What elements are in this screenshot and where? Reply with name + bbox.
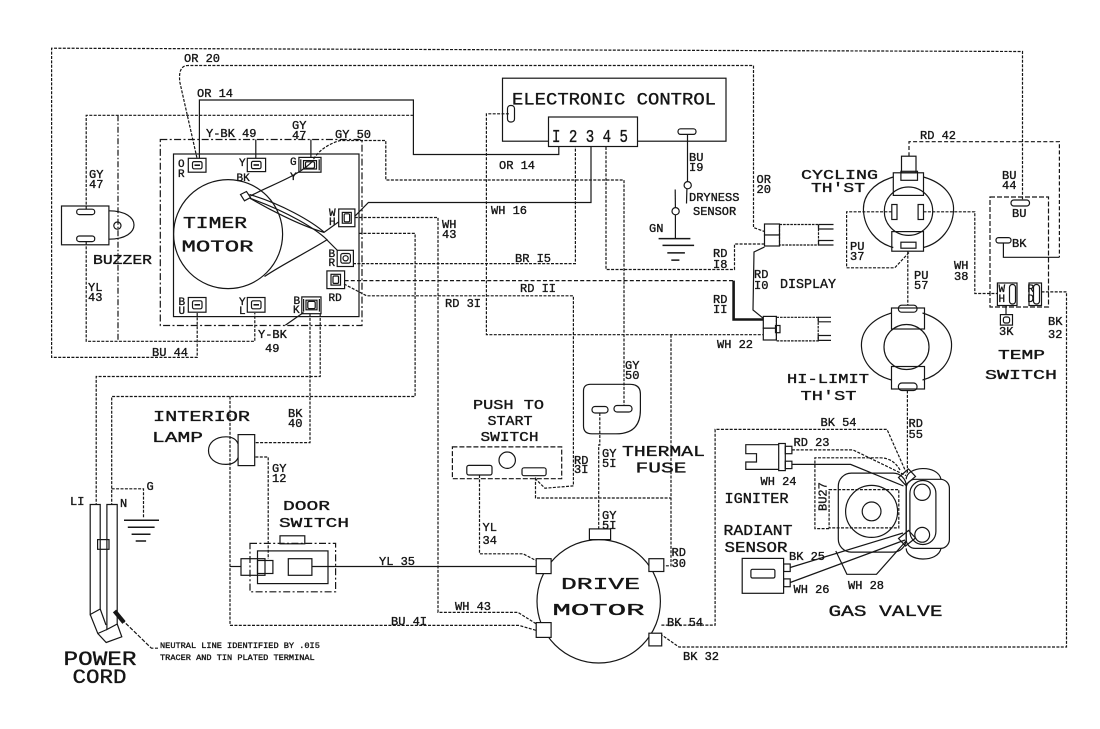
svg-text:57: 57: [914, 279, 928, 293]
wire BR15: B-R terminal right to 12345 pin: [353, 147, 575, 264]
gas valve top hump: [906, 469, 941, 480]
door switch outer box: [250, 543, 336, 591]
drive motor top terminal: [589, 529, 610, 540]
interior lamp socket: [238, 435, 255, 466]
wire RD31: RD terminal diagonal, right y=295.8, down x=573.4, left, diagonal into PTS right terminal: [344, 284, 573, 488]
svg-text:PUSH TO: PUSH TO: [473, 398, 544, 414]
radiant sensor inner capsule: [751, 569, 775, 578]
svg-text:K: K: [293, 305, 300, 317]
svg-text:BK 25: BK 25: [789, 550, 825, 564]
radiant sensor bottom prong: [784, 579, 791, 587]
svg-text:THERMAL: THERMAL: [622, 444, 705, 461]
svg-text:FUSE: FUSE: [636, 461, 687, 478]
wire WH22: EC left pin down x=486.4, right y=334.7 to connector 2: [486, 114, 763, 335]
wire BK40: B-K terminal left side down to lamp socket: [255, 314, 310, 443]
svg-text:12: 12: [272, 472, 286, 486]
svg-text:BK: BK: [237, 173, 251, 185]
temp switch BK terminal capsule: [996, 238, 1011, 243]
cycling thermostat left contact: [892, 205, 897, 220]
gas valve top circle: [914, 484, 930, 500]
svg-text:30: 30: [672, 557, 686, 571]
power cord N prong: [107, 505, 117, 630]
display connector 1 prongs: [819, 225, 834, 246]
svg-text:H: H: [999, 294, 1006, 306]
timer terminal B-K (double wall): [302, 297, 321, 314]
gas valve solenoid pill: [910, 481, 936, 545]
power cord ground bars: [124, 520, 159, 541]
wire YL35: door switch contact to motor upper-left terminal: [312, 566, 537, 568]
svg-text:BU27: BU27: [817, 482, 831, 511]
temp switch BU terminal capsule: [1011, 200, 1030, 206]
cycling thermostat bottom inner rect: [901, 242, 916, 248]
wire GY51: thermal fuse left capsule down to drive motor top: [599, 413, 600, 529]
pts left terminal: [467, 465, 492, 475]
svg-text:WH 26: WH 26: [794, 583, 830, 597]
igniter flange: [779, 444, 786, 471]
wire BK25: sensor top prong to gas valve bottom terminal: [790, 533, 903, 568]
svg-text:YL 35: YL 35: [379, 555, 415, 569]
gas valve coil dashed box: [829, 490, 899, 528]
wire WH38: cycling right contact to temp switch W-H: [924, 212, 998, 294]
svg-text:I 2 3 4 5: I 2 3 4 5: [552, 127, 628, 148]
display connector 2 prongs: [818, 317, 831, 340]
timer cam leaf 2: [251, 199, 328, 277]
buzzer small circle: [114, 222, 121, 229]
svg-text:47: 47: [292, 129, 306, 143]
svg-text:IGNITER: IGNITER: [725, 492, 789, 508]
thermal fuse right capsule: [614, 406, 632, 413]
svg-text:MOTOR: MOTOR: [553, 602, 645, 621]
svg-text:BK 54: BK 54: [821, 416, 857, 430]
gas valve bottom terminal block: [899, 531, 916, 547]
svg-text:OR 14: OR 14: [499, 159, 535, 173]
wire BK32: R-D terminal right, down x=1066.5, left y=647 to motor: [661, 292, 1066, 647]
buzzer box: [62, 206, 109, 245]
GN ground stem: [674, 215, 676, 239]
svg-text:U: U: [179, 306, 186, 318]
svg-text:WH 16: WH 16: [491, 204, 527, 218]
radiant sensor box: [742, 558, 783, 593]
wire timer-K to power L1: down x=320.2, left y=376.5, down x=96.2 to L1 prong: [96, 314, 320, 505]
timer terminal G-Y (double wall): [299, 157, 321, 172]
wire YL43: buzzer bottom down, right along y=341.3, up into Y-L terminal: [86, 242, 255, 341]
power cord ground wire: [112, 489, 144, 519]
gas valve bottom circle: [915, 527, 930, 542]
svg-text:GN: GN: [649, 222, 663, 236]
wire WH24: igniter bottom right, diagonal to gas valve top terminal lower: [792, 464, 904, 486]
wire RD42: cycling top to temp switch BK line: [909, 142, 1059, 258]
timer terminal B-U: [188, 298, 206, 313]
svg-text:NEUTRAL LINE IDENTIFIED BY .0I: NEUTRAL LINE IDENTIFIED BY .0I5: [160, 641, 320, 651]
wire GY47 drop to G-Y terminal: [310, 140, 312, 159]
svg-text:SWITCH: SWITCH: [985, 369, 1057, 384]
svg-text:43: 43: [88, 291, 102, 305]
power cord L1 prong: [90, 505, 100, 615]
gas valve bottom hump: [906, 548, 941, 559]
drive motor upper-right terminal: [649, 559, 664, 572]
svg-text:BU 44: BU 44: [152, 346, 188, 360]
cycling thermostat top neck: [893, 173, 923, 196]
buzzer top terminal: [77, 209, 95, 214]
wire YL34: pts left terminal down, right, into motor upper-left: [480, 475, 538, 561]
thermal fuse left capsule: [592, 407, 608, 414]
svg-text:ELECTRONIC CONTROL: ELECTRONIC CONTROL: [512, 91, 716, 111]
timer inner box: [174, 154, 360, 317]
wire OR14: O-R terminal up, right, down at 413.4, right to 12345 pin1: [199, 100, 558, 158]
wire door-switch drop: from N line down x=230 to BU41 run: [229, 397, 231, 626]
wire door switch left terminal to BU41 drop: [230, 566, 241, 568]
drive motor upper-left terminal: [536, 559, 551, 574]
wire RD10: connector1 to connector2 vertical: [753, 247, 765, 319]
svg-text:TH'ST: TH'ST: [801, 389, 857, 405]
gas valve bottom flange: [836, 541, 906, 574]
svg-text:BK: BK: [1048, 315, 1063, 329]
door switch contact rect: [288, 559, 312, 576]
cycling thermostat top stem rect: [902, 156, 917, 173]
svg-text:BU: BU: [1012, 207, 1026, 221]
svg-text:50: 50: [625, 369, 639, 383]
hi-limit top capsule: [898, 305, 917, 312]
svg-text:OR 20: OR 20: [184, 52, 220, 66]
svg-text:44: 44: [1002, 179, 1016, 193]
svg-text:5I: 5I: [602, 457, 616, 471]
wire BK: BK capsule down then right to RD42: [1003, 243, 1059, 257]
svg-text:WH 43: WH 43: [455, 600, 491, 614]
svg-text:BK 54: BK 54: [667, 616, 703, 630]
GN ground bars: [659, 239, 695, 261]
svg-text:G: G: [147, 480, 154, 494]
svg-text:I9: I9: [689, 161, 703, 175]
svg-text:DISPLAY: DISPLAY: [780, 278, 836, 293]
timer cam leaf2 tip link to B-R: [327, 240, 338, 251]
timer terminal Y-L: [247, 298, 265, 313]
timer terminal RD: [327, 271, 345, 289]
gas valve body rounded square: [838, 473, 906, 552]
svg-text:DOOR: DOOR: [283, 499, 331, 515]
svg-text:YL: YL: [483, 521, 497, 535]
svg-text:32: 32: [1048, 328, 1062, 342]
wire OR20: O-R terminal diagonal up, across y=65.5, down right side at x=753.5 to display connector 1: [180, 66, 765, 232]
svg-text:37: 37: [850, 250, 864, 264]
hi-limit left wing: [861, 313, 891, 380]
svg-text:RADIANT: RADIANT: [724, 524, 793, 540]
wire GY47: buzzer top up, right along y=115.3 to OR14 vertical: [86, 115, 413, 209]
wire PU37: cycling left contact loop: [847, 212, 909, 268]
timer cam leaf1 tip to W-H link: [325, 222, 339, 232]
svg-text:R: R: [329, 258, 336, 270]
wire Y-BK49 bottom: B-K terminal diagonal down-left to box corner: [285, 313, 303, 326]
temp switch W-H terminal: [997, 283, 1017, 306]
igniter top terminal: [785, 446, 792, 453]
wire RD55: hi-limit bottom to gas valve top terminal: [906, 391, 907, 474]
pts right terminal: [522, 468, 546, 476]
temp switch R-D terminal: [1029, 283, 1042, 306]
door switch inner box: [258, 551, 329, 584]
svg-text:START: START: [488, 414, 533, 430]
radiant sensor top prong: [784, 564, 791, 572]
hi-limit top neck: [892, 308, 925, 329]
drive motor lower-left terminal: [536, 623, 551, 638]
igniter bottom terminal: [785, 461, 792, 468]
svg-text:RD II: RD II: [520, 282, 556, 296]
dryness sensor contact 2: [672, 208, 679, 215]
wire BU19: EC terminal down to dryness sensor contact: [687, 134, 689, 182]
svg-text:Y-BK: Y-BK: [258, 328, 288, 342]
hi-limit right wing: [923, 313, 952, 380]
svg-text:SWITCH: SWITCH: [481, 430, 539, 446]
power cord note pointer: [122, 620, 158, 649]
svg-text:38: 38: [954, 270, 968, 284]
svg-text:RD 42: RD 42: [920, 129, 956, 143]
wire N line: timer box edge y=233.4 right, down x=415.1, left y=396.5, down x=111.7 to N prong: [112, 233, 415, 504]
svg-text:40: 40: [288, 417, 302, 431]
svg-text:INTERIOR: INTERIOR: [153, 409, 250, 426]
enclosure dash-dot drop at x=118 to YL43 line: [117, 115, 119, 341]
svg-text:BK 32: BK 32: [683, 650, 719, 664]
svg-text:G: G: [290, 157, 297, 169]
timer cam anchor parallelogram: [241, 192, 251, 201]
interior lamp bulb: [209, 437, 239, 465]
cycling thermostat inner top rect: [901, 171, 918, 180]
svg-text:Y: Y: [239, 158, 246, 170]
wire PU57: cycling bottom to hi-limit top: [907, 251, 909, 305]
cycling thermostat right wing: [924, 177, 954, 248]
cycling thermostat body circle: [884, 187, 932, 235]
svg-text:OR 14: OR 14: [197, 87, 233, 101]
svg-text:DRYNESS: DRYNESS: [689, 191, 739, 205]
12345 box (masks EC bottom edge): [549, 117, 638, 147]
wire RD11: RD terminal right to x=733.6 then thick down and right into connector 2: [345, 280, 734, 282]
svg-text:I8: I8: [713, 258, 727, 272]
svg-text:TIMER: TIMER: [183, 214, 247, 233]
cycling thermostat bottom neck: [892, 232, 924, 252]
svg-text:H: H: [329, 217, 336, 229]
wire RD18: 12345 pin C down, right y=269.5, up x=734.5, into connector 1 lower pin: [606, 147, 765, 270]
svg-text:BK: BK: [1012, 237, 1027, 251]
gas valve inner circle: [862, 502, 881, 521]
svg-text:MOTOR: MOTOR: [182, 238, 254, 257]
wire RD23: igniter top right, diagonal to gas valve top terminal: [792, 450, 906, 476]
display connector 2 bump: [776, 326, 781, 333]
svg-text:I0: I0: [754, 279, 768, 293]
door switch left terminal: [241, 559, 265, 576]
svg-text:49: 49: [265, 342, 279, 356]
hi-limit bottom capsule: [898, 383, 917, 391]
svg-text:BUZZER: BUZZER: [93, 253, 153, 269]
wire BU44 perimeter: timer B-U down, left, up left side, across top, down to temp switch BU: [52, 48, 1023, 357]
svg-text:43: 43: [442, 228, 456, 242]
hi-limit bottom neck: [892, 367, 925, 390]
svg-text:WH 22: WH 22: [717, 338, 753, 352]
wire WH16: W-H terminal diagonal, right along y=202.5 to 12345 pin: [355, 147, 591, 216]
dryness sensor contact 1: [684, 182, 691, 189]
wire GY12: lamp socket to door switch left terminal: [255, 457, 268, 559]
temp switch box: [990, 197, 1049, 307]
temp switch 3K terminal: [1005, 306, 1007, 315]
thermal fuse blob: [584, 384, 641, 434]
svg-text:TEMP: TEMP: [998, 349, 1045, 364]
svg-text:L: L: [239, 306, 246, 318]
svg-text:GAS VALVE: GAS VALVE: [829, 603, 943, 621]
buzzer bump: [109, 211, 134, 239]
svg-text:SENSOR: SENSOR: [693, 205, 736, 219]
wire GY50: G-Y terminal curve right, down x=385.8, right y=180, down x=624 to thermal fuse: [314, 141, 624, 406]
timer terminal W-H: [339, 209, 355, 227]
BU19 terminal capsule on EC bottom: [678, 129, 696, 135]
cycling thermostat left wing: [863, 177, 893, 248]
svg-text:II: II: [713, 303, 727, 317]
svg-text:BR I5: BR I5: [515, 252, 551, 266]
dryness sensor arm from contact1: [686, 189, 688, 204]
svg-text:SWITCH: SWITCH: [279, 516, 349, 532]
svg-text:RD 23: RD 23: [794, 436, 830, 450]
power cord tin mark (dark): [115, 611, 125, 623]
timer cam hand from G-Y terminal: [251, 160, 314, 196]
svg-text:LI: LI: [70, 495, 84, 509]
wire BU27: hook from gas valve top area down left edge to coil box: [815, 458, 900, 529]
svg-text:Y: Y: [290, 172, 297, 184]
svg-text:20: 20: [757, 183, 771, 197]
svg-text:LAMP: LAMP: [152, 430, 203, 447]
svg-text:RD 3I: RD 3I: [445, 297, 481, 311]
cycling thermostat right contact: [918, 205, 923, 220]
svg-text:TH'ST: TH'ST: [811, 182, 865, 197]
EC left pin capsule: [508, 106, 515, 123]
dryness sensor tick above contact2: [674, 190, 676, 208]
gas valve solenoid cap: [906, 479, 949, 548]
svg-text:55: 55: [909, 428, 923, 442]
svg-text:TRACER AND TIN PLATED TERMINAL: TRACER AND TIN PLATED TERMINAL: [160, 653, 315, 663]
door switch top bump: [280, 536, 305, 544]
gas valve big circle: [846, 485, 898, 537]
pts button circle: [499, 452, 515, 468]
hi-limit body circle: [884, 325, 929, 370]
svg-text:DRIVE: DRIVE: [561, 576, 640, 595]
timer motor circle: [174, 180, 283, 289]
buzzer bottom terminal: [77, 236, 95, 242]
svg-text:WH 24: WH 24: [761, 475, 797, 489]
igniter fork: [746, 445, 779, 470]
wire Y-BK49 top: Y-BK terminal up to timer box top edge: [255, 140, 257, 159]
svg-text:CORD: CORD: [73, 667, 127, 690]
wire BK54: motor lower-right, right, up x=715.1, right y=429.4, diagonal to gas valve: [661, 429, 905, 625]
wire BU41: along y=625.4 to drive motor lower-left terminal: [230, 625, 537, 630]
timer terminal Y-BK: [247, 158, 265, 171]
svg-text:SENSOR: SENSOR: [725, 541, 788, 557]
gas valve top terminal block: [899, 469, 916, 485]
svg-text:N: N: [120, 497, 127, 511]
display connector 2 left block (2 squares): [763, 316, 776, 328]
svg-text:WH 28: WH 28: [848, 579, 884, 593]
display connector 1 body: [780, 225, 819, 246]
display connector 1 left block (2 squares): [765, 224, 780, 235]
power cord bridge rect: [98, 540, 109, 550]
svg-text:R: R: [178, 169, 185, 181]
svg-text:34: 34: [483, 534, 497, 548]
power cord bottom caps: [90, 609, 122, 643]
svg-text:RD: RD: [329, 293, 343, 305]
svg-text:3K: 3K: [999, 325, 1014, 339]
timer terminal O-R: [188, 158, 206, 172]
display connector 2 body: [776, 317, 818, 341]
timer outer dashed box: [160, 140, 362, 326]
drive motor lower-right terminal: [649, 633, 662, 646]
svg-text:3I: 3I: [574, 463, 588, 477]
drive motor circle: [537, 540, 660, 663]
push to start switch box: [452, 447, 561, 479]
timer cam leaf 1: [250, 195, 325, 233]
svg-text:47: 47: [89, 178, 103, 192]
svg-text:BU 4I: BU 4I: [391, 615, 427, 629]
wire WH43: timer W-H terminal right, down x=438, right to motor lower-left: [355, 218, 537, 625]
wire WH26: sensor bottom prong to gas valve bottom terminal: [790, 540, 905, 583]
svg-text:D: D: [1028, 294, 1035, 306]
electronic control box: [503, 78, 727, 141]
wire RD30: pts right terminal right, down x=671 to motor upper-right; top tee to WH22: [661, 335, 671, 566]
timer terminal B-R: [337, 250, 353, 266]
svg-text:HI-LIMIT: HI-LIMIT: [787, 372, 869, 388]
